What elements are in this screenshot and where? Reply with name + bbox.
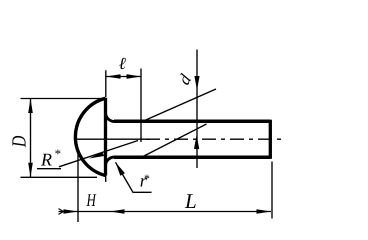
extension line l left	[105, 70, 107, 97]
leader R* (through dome arc toward centre)	[59, 141, 138, 167]
dimension line d (vertical)	[196, 50, 198, 169]
centerline solid segment through head	[77, 138, 150, 140]
dimension line H and L	[59, 211, 272, 213]
arrow L right (points right)	[257, 209, 272, 214]
extension line stub under head face	[105, 174, 107, 182]
extension line l right (down to axis)	[140, 69, 142, 143]
underline R*	[37, 168, 61, 170]
centerline dash-dot axis	[146, 138, 282, 140]
svg-text:L: L	[184, 189, 197, 213]
extension line H left (from dome apex)	[77, 151, 79, 222]
svg-text:ℓ: ℓ	[119, 54, 126, 73]
extension line L right	[271, 162, 273, 219]
oblique extension line d bottom	[142, 124, 207, 157]
svg-text:R: R	[40, 150, 52, 170]
extension line D bottom	[21, 176, 98, 178]
svg-text:d: d	[174, 71, 195, 88]
svg-text:*: *	[54, 146, 61, 161]
shank top edge	[114, 120, 270, 124]
fillet r top (under-head fillet)	[106, 113, 115, 122]
leader r*	[116, 162, 152, 192]
arrow l right	[127, 74, 142, 79]
arrow l left	[106, 74, 121, 79]
svg-text:H: H	[86, 190, 97, 210]
shank end face	[269, 120, 272, 159]
svg-text:D: D	[9, 135, 31, 148]
arrow d lower (points up)	[194, 135, 199, 149]
arrow H left (outside, points right)	[64, 209, 79, 214]
svg-text:*: *	[143, 172, 149, 186]
extension line D top	[21, 98, 106, 100]
arrow H right / L left (points left)	[110, 209, 125, 214]
dimension line l	[106, 76, 141, 78]
head dome arc	[75, 98, 105, 175]
fillet r bottom	[106, 157, 115, 166]
oblique extension line d top	[144, 89, 216, 121]
arrow D bottom	[28, 163, 33, 178]
arrow d upper (points down)	[194, 76, 199, 90]
fork on H left arrow tail	[59, 209, 64, 215]
arrow D top	[28, 99, 33, 114]
arrow R* (on leader, points down-left at dome arc)	[89, 152, 104, 159]
dimension line D	[30, 99, 32, 178]
shank bottom edge	[114, 155, 270, 159]
head face line (underside plane of rivet head)	[104, 98, 107, 176]
arrow r* (points up-left at bottom fillet)	[116, 162, 125, 175]
